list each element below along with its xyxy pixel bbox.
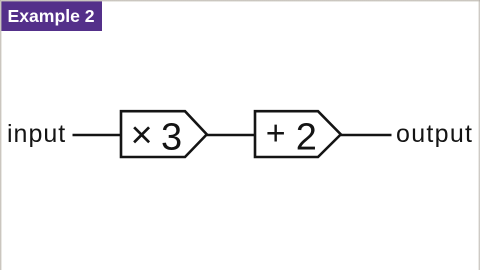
svg-text:input: input	[7, 120, 66, 148]
svg-text:output: output	[396, 120, 473, 148]
wire add box to output	[341, 134, 392, 137]
banner: Example 2	[1, 1, 102, 31]
border frame left	[0, 0, 2, 270]
wire input to multiply box	[73, 134, 123, 137]
wire multiply to add box	[207, 134, 256, 137]
border frame right	[478, 0, 480, 270]
border frame top	[0, 0, 480, 2]
function box M2 +2 pentagon	[255, 111, 341, 157]
function box M1 ×3 pentagon	[121, 111, 207, 157]
